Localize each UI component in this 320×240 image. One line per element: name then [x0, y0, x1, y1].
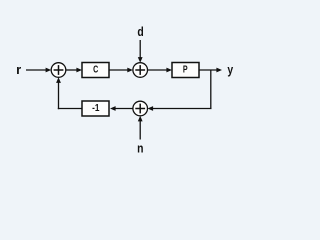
svg-text:C: C [93, 64, 98, 75]
wire P to output y (with arrowhead) [199, 68, 222, 73]
svg-text:P: P [183, 64, 188, 75]
wire r to summing junction S1 (with arrowhead) [26, 68, 51, 73]
svg-text:r: r [16, 62, 21, 77]
summing junction S3 [133, 101, 148, 116]
block C [82, 63, 109, 78]
node d label [137, 25, 143, 39]
block -1 [82, 101, 109, 116]
svg-text:n: n [137, 142, 143, 156]
wire S2 to block P (with arrowhead) [148, 68, 173, 73]
wire S1 to block C (with arrowhead) [66, 68, 82, 73]
svg-text:-1: -1 [92, 103, 99, 114]
wire branch from output down to S3 (with arrowhead) [148, 70, 212, 111]
node y label [227, 63, 233, 77]
block P [172, 63, 199, 78]
wire n to summing junction S3 (with arrowhead) [138, 116, 143, 140]
wire S3 to block -1 (with arrowhead) [110, 106, 133, 111]
wire -1 back up to S1 (with arrowhead) [56, 77, 82, 109]
summing junction S2 [133, 63, 148, 78]
wire C to summing junction S2 (with arrowhead) [109, 68, 133, 73]
summing junction S1 [51, 63, 66, 78]
svg-text:d: d [137, 25, 143, 39]
node n label [137, 142, 143, 156]
svg-text:y: y [227, 63, 233, 77]
wire d to summing junction S2 (with arrowhead) [138, 40, 143, 63]
node r label [16, 62, 21, 77]
